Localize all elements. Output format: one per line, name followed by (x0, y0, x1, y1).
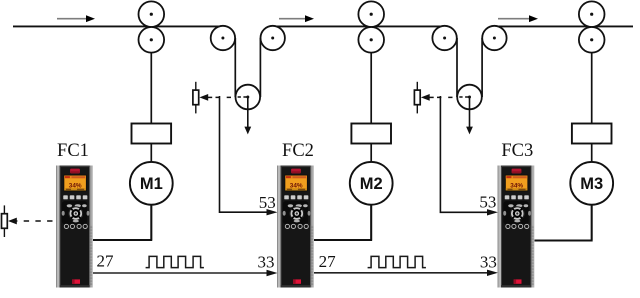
pulse train 2 (368, 256, 426, 267)
svg-text:M1: M1 (140, 175, 163, 193)
direction arrow 3 (498, 15, 538, 22)
wire: pot3 dashed link to dancer 2 (430, 96, 470, 98)
wire: FC2 terminal 27 to FC3 terminal 33 (313, 270, 498, 276)
potentiometer 1 (FC1 reference) (2, 205, 17, 237)
svg-text:53: 53 (259, 193, 276, 212)
svg-text:M2: M2 (360, 175, 383, 193)
direction arrow 2 (279, 15, 314, 22)
web line segment 2 (273, 25, 445, 27)
svg-text:33: 33 (258, 252, 275, 271)
wire: pot2 feedback to FC2 terminal 53 (220, 96, 278, 215)
wire: FC1 to motor M1 (93, 205, 152, 240)
svg-text:FC2: FC2 (282, 141, 314, 161)
dancer group 1 (211, 26, 285, 135)
potentiometer 2 (dancer 1 position) (193, 82, 208, 114)
pulse train 1 (146, 256, 204, 267)
svg-text:FC1: FC1 (57, 141, 89, 161)
web line segment 3 (495, 25, 634, 27)
svg-text:27: 27 (97, 252, 115, 271)
dancer group 2 (432, 26, 506, 135)
svg-text:M3: M3 (580, 175, 603, 193)
wire: pot1 dashed reference into FC1 (12, 220, 57, 222)
wire: FC3 to motor M3 (534, 205, 592, 241)
drive FC3 (498, 166, 535, 288)
drive FC2 (277, 166, 314, 288)
direction arrow 1 (57, 15, 95, 22)
svg-text:53: 53 (479, 192, 496, 211)
potentiometer 3 (dancer 2 position) (414, 82, 429, 114)
svg-text:27: 27 (319, 252, 337, 271)
nip rollers + coupling + motor circle, line 2 (350, 1, 393, 240)
drive FC1 (56, 166, 93, 288)
wire: pot3 feedback to FC3 terminal 53 (440, 96, 498, 216)
svg-text:FC3: FC3 (501, 141, 533, 161)
svg-text:33: 33 (480, 252, 497, 271)
nip rollers + coupling + motor circle, line 1 (130, 1, 173, 240)
wire: pot2 dashed link to dancer 1 (208, 96, 248, 98)
web line segment 1 (13, 25, 223, 27)
wire: FC2 to motor M2 (313, 205, 371, 240)
wire: FC1 terminal 27 to FC2 terminal 33 (93, 270, 278, 276)
nip rollers + coupling + motor circle, line 3 (570, 1, 613, 240)
